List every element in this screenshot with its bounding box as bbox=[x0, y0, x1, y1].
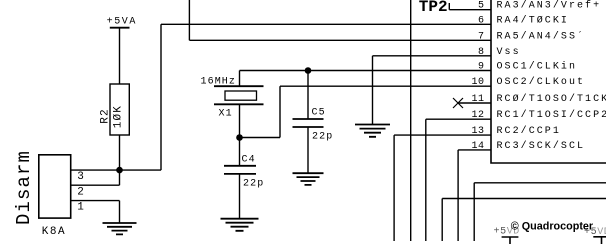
svg-text:OSC2/CLKout: OSC2/CLKout bbox=[497, 76, 586, 88]
ground under C5 bbox=[293, 173, 324, 185]
wire pin14 RC3 bbox=[458, 150, 491, 241]
wire bottom right A bbox=[474, 183, 606, 241]
MCU box U1 edge bbox=[491, 0, 606, 163]
svg-text:11: 11 bbox=[471, 94, 484, 105]
svg-text:RCØ/T1OSO/T1CKI: RCØ/T1OSO/T1CKI bbox=[497, 93, 606, 105]
svg-text:12: 12 bbox=[471, 110, 484, 121]
svg-text:14: 14 bbox=[471, 141, 484, 152]
capacitor C5 plates bbox=[293, 119, 324, 127]
resistor R1 box bbox=[110, 84, 129, 135]
pin 11 stub bbox=[458, 102, 491, 104]
wire R2 bottom stem bbox=[119, 135, 121, 170]
wire C5 bottom stem bbox=[307, 127, 309, 173]
svg-text:RA5/AN4/SS´: RA5/AN4/SS´ bbox=[497, 29, 586, 42]
svg-text:22p: 22p bbox=[243, 178, 264, 189]
svg-text:10: 10 bbox=[471, 77, 484, 88]
junction node R2/pin3 bbox=[116, 167, 123, 174]
wire pin8 Vss bbox=[373, 55, 492, 57]
svg-text:8: 8 bbox=[478, 47, 485, 58]
svg-text:RA4/TØCKI: RA4/TØCKI bbox=[497, 14, 569, 26]
svg-text:X1: X1 bbox=[219, 109, 233, 120]
wire C4 top stem bbox=[239, 138, 241, 166]
svg-text:9: 9 bbox=[478, 62, 485, 73]
wire pin10 OSC2 bbox=[280, 85, 491, 87]
svg-text:+5VA: +5VA bbox=[107, 17, 137, 28]
ground for Vss bbox=[355, 125, 390, 137]
wire long vertical bbox=[410, 0, 412, 241]
svg-text:TP2: TP2 bbox=[419, 0, 448, 16]
wire pin7 RA5 row bbox=[189, 39, 491, 41]
wire disarm pin1 bbox=[71, 201, 120, 223]
svg-text:C4: C4 bbox=[242, 155, 256, 166]
wire pin6 RA4 row bbox=[161, 23, 491, 25]
svg-text:6: 6 bbox=[478, 15, 485, 26]
svg-text:Vss: Vss bbox=[497, 47, 521, 58]
svg-text:© Quadrocopter: © Quadrocopter bbox=[511, 220, 594, 232]
wire junction to pin2 bbox=[119, 170, 121, 185]
capacitor C4 plates bbox=[224, 166, 256, 174]
wire pin9 OSC1 bbox=[240, 70, 492, 72]
svg-text:RA3/AN3/Vref+: RA3/AN3/Vref+ bbox=[497, 0, 602, 12]
svg-text:RC3/SCK/SCL: RC3/SCK/SCL bbox=[497, 140, 586, 152]
wire bottom right B bbox=[442, 199, 606, 242]
junction node crystal/C4/OSC2 bbox=[236, 134, 243, 141]
svg-text:K8A: K8A bbox=[42, 226, 66, 238]
svg-text:RC2/CCP1: RC2/CCP1 bbox=[497, 125, 561, 137]
wire C4 bottom stem bbox=[239, 174, 241, 218]
unconnected X on pin 11 bbox=[453, 98, 463, 108]
wire crystal bottom stem bbox=[239, 104, 241, 137]
wire vertical from top to RA5 row bbox=[188, 0, 190, 40]
wire OSC2 riser bbox=[279, 86, 281, 137]
wire R2 top stem bbox=[119, 28, 121, 84]
wire pin5 TP2 stub bbox=[449, 3, 491, 10]
svg-text:Disarm: Disarm bbox=[13, 150, 35, 225]
svg-text:1ØK: 1ØK bbox=[113, 105, 125, 128]
wire Vss ground drop bbox=[372, 56, 374, 124]
svg-text:13: 13 bbox=[471, 126, 484, 137]
svg-text:RC1/T1OSI/CCP2: RC1/T1OSI/CCP2 bbox=[497, 109, 606, 121]
crystal X1 plates bbox=[214, 86, 264, 104]
svg-text:C5: C5 bbox=[312, 108, 326, 119]
wire pin12 RC1 bbox=[426, 119, 491, 241]
wire pin13 RC2 bbox=[394, 135, 491, 241]
svg-text:3: 3 bbox=[77, 171, 84, 183]
wire crystal top stem bbox=[239, 71, 241, 87]
svg-text:16MHz: 16MHz bbox=[201, 77, 237, 88]
svg-text:2: 2 bbox=[77, 186, 84, 198]
svg-text:7: 7 bbox=[478, 31, 485, 42]
ground under C4 bbox=[221, 219, 259, 231]
+5V right supply bar bbox=[593, 237, 606, 244]
svg-text:R2: R2 bbox=[99, 108, 111, 124]
wire crystal to OSC2 riser bbox=[240, 137, 281, 139]
connector K8A box bbox=[39, 155, 71, 218]
wire disarm pin3 bbox=[71, 169, 161, 171]
svg-text:1: 1 bbox=[77, 202, 84, 214]
wire C5 top stem bbox=[307, 71, 309, 120]
wire vertical disarm to RA4 bbox=[160, 24, 162, 170]
+5VA supply bar bbox=[110, 27, 130, 29]
ground under K8A pin1 bbox=[103, 223, 137, 234]
wire disarm pin2 bbox=[71, 184, 120, 186]
svg-text:OSC1/CLKin: OSC1/CLKin bbox=[497, 61, 578, 73]
MCU pin numbers bbox=[471, 1, 484, 152]
+5VD supply bar bbox=[502, 237, 519, 244]
svg-text:5: 5 bbox=[478, 1, 485, 12]
crystal X1 body bbox=[225, 91, 257, 100]
MCU pin names bbox=[497, 0, 606, 152]
junction node OSC1/C5 bbox=[305, 67, 312, 74]
svg-text:22p: 22p bbox=[312, 132, 333, 143]
